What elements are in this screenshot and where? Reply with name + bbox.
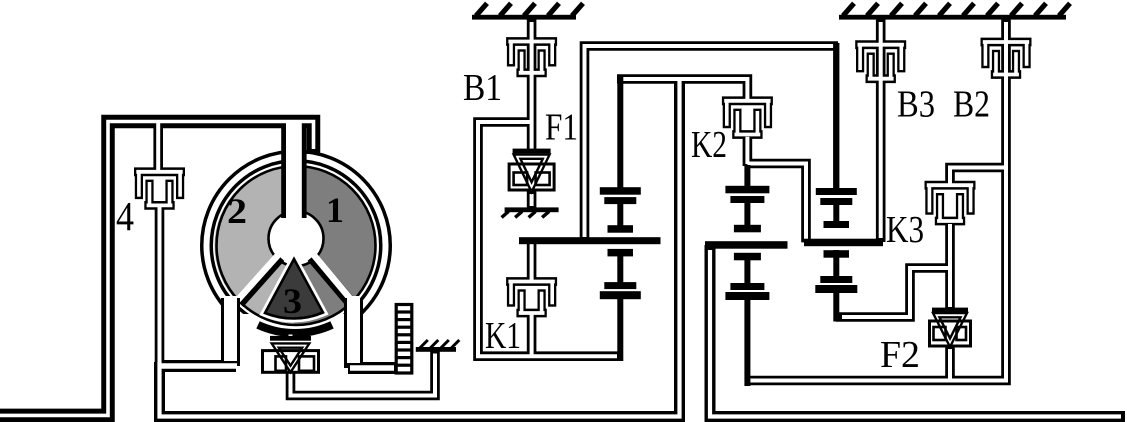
- svg-text:F1: F1: [545, 107, 578, 149]
- svg-text:B3: B3: [897, 84, 935, 126]
- svg-text:3: 3: [283, 281, 302, 321]
- svg-text:1: 1: [326, 190, 344, 230]
- svg-text:4: 4: [116, 193, 134, 239]
- svg-text:K3: K3: [886, 209, 924, 251]
- svg-text:F2: F2: [880, 334, 920, 376]
- svg-text:2: 2: [227, 191, 247, 231]
- svg-text:K2: K2: [691, 124, 727, 166]
- svg-text:B2: B2: [953, 84, 990, 126]
- svg-text:K1: K1: [485, 315, 521, 357]
- svg-text:B1: B1: [463, 67, 502, 109]
